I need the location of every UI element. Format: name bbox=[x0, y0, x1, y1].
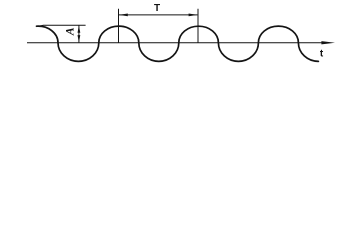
svg-text:T: T bbox=[154, 3, 160, 14]
wave trough 3 bbox=[218, 43, 258, 62]
period dim arrow right bbox=[189, 14, 198, 17]
period dimension line bbox=[119, 14, 197, 16]
wave hump 3 bbox=[179, 26, 219, 43]
label T bbox=[154, 3, 160, 14]
svg-text:t: t bbox=[320, 48, 324, 59]
period extension line right (through hump 3 peak) bbox=[197, 9, 199, 43]
amplitude dim arrow down bbox=[78, 35, 81, 42]
period extension line left (through hump 2 peak) bbox=[118, 9, 120, 43]
label A bbox=[64, 27, 76, 36]
amplitude dim arrow up bbox=[78, 26, 81, 33]
wave trough 1 bbox=[58, 43, 99, 62]
period dim arrow left bbox=[119, 14, 128, 17]
wave hump 2 bbox=[99, 26, 139, 43]
svg-text:A: A bbox=[64, 27, 76, 36]
amplitude extension line (from start of hump 1) bbox=[36, 25, 85, 26]
amplitude dimension line bbox=[78, 26, 80, 43]
wave hump 1 (partial, starts at top) bbox=[37, 26, 59, 43]
axis arrowhead bbox=[321, 41, 335, 44]
time axis bbox=[27, 42, 325, 44]
label t bbox=[320, 48, 324, 59]
wave hump 4 bbox=[258, 26, 298, 43]
wave trough 4 (partial, ends at bottom) bbox=[298, 43, 318, 62]
wave trough 2 bbox=[139, 43, 179, 62]
